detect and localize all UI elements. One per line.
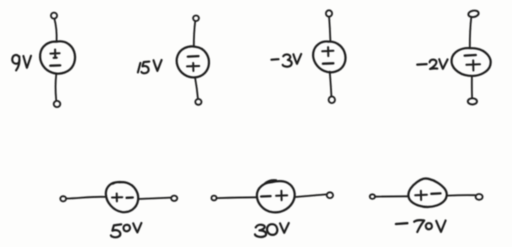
minus sign bbox=[127, 196, 133, 199]
voltage source V2 15V bbox=[138, 15, 209, 104]
voltage source V3 -3V bbox=[271, 10, 345, 103]
source body circle bbox=[408, 179, 446, 207]
voltage source V7 -70V bbox=[370, 179, 483, 232]
terminal right bbox=[327, 192, 333, 198]
wire right bbox=[447, 194, 475, 196]
terminal top bbox=[193, 15, 199, 21]
plus sign bbox=[187, 63, 199, 71]
label -2V bbox=[417, 63, 427, 66]
terminal left bbox=[211, 196, 216, 201]
terminal top bbox=[468, 10, 479, 18]
wire left bbox=[66, 197, 106, 199]
plus sign bbox=[112, 194, 122, 202]
source body circle bbox=[106, 182, 138, 212]
plus sign bbox=[322, 47, 333, 56]
terminal bottom bbox=[329, 97, 335, 104]
wire bottom bbox=[330, 72, 332, 97]
wire bottom bbox=[195, 78, 198, 98]
stroke hook at top bbox=[264, 180, 276, 184]
terminal right bbox=[476, 194, 483, 200]
label 30V bbox=[255, 225, 266, 237]
wire top bbox=[194, 21, 195, 46]
terminal top bbox=[326, 10, 332, 16]
source body circle bbox=[257, 181, 295, 212]
label -3V bbox=[271, 58, 278, 61]
wire right bbox=[138, 198, 171, 199]
voltage source V1 9V bbox=[12, 13, 75, 108]
wire left bbox=[217, 196, 257, 199]
stroke overlap at top bbox=[113, 182, 122, 184]
wire bottom bbox=[471, 76, 473, 98]
wire right bbox=[295, 194, 326, 197]
voltage source V5 50V bbox=[60, 182, 177, 237]
label 15V bbox=[138, 63, 141, 73]
terminal bottom bbox=[195, 99, 201, 105]
minus sign bbox=[431, 192, 440, 195]
minus sign bbox=[465, 54, 476, 57]
terminal bottom bbox=[54, 101, 61, 107]
plus sign bbox=[466, 60, 480, 70]
wire bottom bbox=[55, 74, 58, 101]
terminal top bbox=[51, 13, 57, 19]
wire left bbox=[375, 195, 408, 197]
label -70V bbox=[396, 222, 408, 225]
minus sign bbox=[50, 64, 60, 67]
plus sign bbox=[415, 191, 427, 200]
source body circle bbox=[452, 48, 491, 76]
source body circle bbox=[40, 41, 75, 73]
wire top bbox=[54, 19, 56, 42]
terminal left bbox=[370, 194, 375, 199]
minus sign bbox=[261, 195, 271, 198]
terminal bottom bbox=[468, 98, 477, 104]
label 50V bbox=[111, 224, 121, 237]
voltage source V4 -2V bbox=[417, 10, 490, 105]
terminal left bbox=[60, 196, 66, 201]
minus sign bbox=[323, 62, 334, 65]
voltage source V6 30V bbox=[211, 180, 333, 237]
source body circle bbox=[313, 41, 345, 72]
wire top bbox=[329, 17, 330, 42]
label 9V bbox=[12, 55, 19, 70]
plus sign bbox=[276, 191, 287, 200]
wire top bbox=[470, 17, 472, 48]
source body circle bbox=[177, 46, 209, 77]
terminal right bbox=[171, 196, 177, 201]
minus sign bbox=[188, 55, 199, 58]
plus sign bbox=[50, 50, 59, 58]
